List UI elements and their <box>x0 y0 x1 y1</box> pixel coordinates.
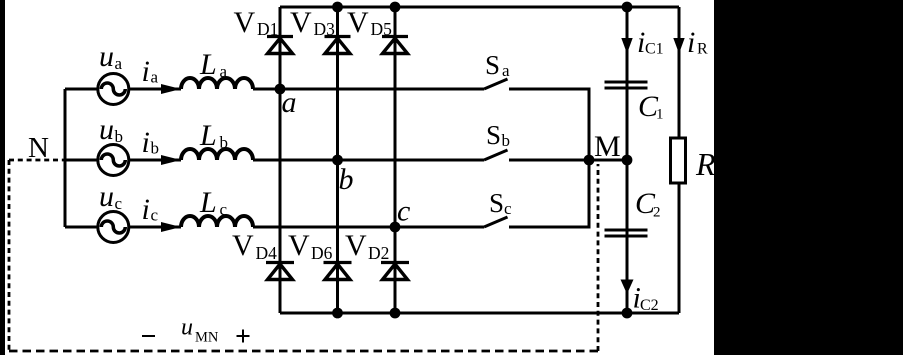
label iR <box>687 26 708 59</box>
svg-text:i: i <box>142 55 150 88</box>
label uMN <box>181 315 219 346</box>
label Lc <box>199 186 228 219</box>
switch Sa <box>484 79 508 89</box>
svg-text:i: i <box>142 126 150 159</box>
svg-text:u: u <box>99 180 114 213</box>
svg-text:M: M <box>594 130 621 163</box>
wire capacitor leg <box>626 7 629 313</box>
label C2 <box>635 187 661 221</box>
node c junction dot <box>390 222 401 233</box>
label uc <box>99 180 123 213</box>
svg-text:S: S <box>489 188 504 218</box>
svg-text:V: V <box>232 229 254 262</box>
label VD6 <box>288 229 333 263</box>
label ic <box>142 193 159 226</box>
svg-text:V: V <box>288 229 310 262</box>
svg-text:a: a <box>282 86 297 119</box>
source ua <box>98 74 129 105</box>
arrow iC1 current <box>621 38 632 54</box>
label VD4 <box>232 229 277 263</box>
svg-text:c: c <box>504 199 512 218</box>
node a junction dot <box>275 84 286 95</box>
diode VD6 <box>324 263 352 280</box>
label ua <box>99 40 123 73</box>
node capacitor midpoint dot <box>622 155 633 166</box>
svg-text:V: V <box>234 6 256 39</box>
label Lb <box>199 119 228 152</box>
switch Sc <box>484 217 508 227</box>
svg-text:D5: D5 <box>371 19 393 39</box>
wire bridge leg 1 (x=280) <box>279 7 282 313</box>
wire Sc to M leg <box>509 160 589 227</box>
label R <box>695 146 716 182</box>
svg-text:D4: D4 <box>256 243 278 263</box>
svg-text:C1: C1 <box>645 41 664 58</box>
dashed vertical to M <box>597 164 600 351</box>
label node c <box>397 195 410 228</box>
svg-text:MN: MN <box>195 330 219 346</box>
svg-text:S: S <box>486 120 501 150</box>
wire phase c line <box>65 226 484 229</box>
junction dot bottom bus leg2 <box>332 308 343 319</box>
label iC2 <box>633 282 659 315</box>
svg-text:b: b <box>339 163 354 196</box>
wire bridge leg 2 (x=337.5) <box>336 7 339 313</box>
svg-text:V: V <box>347 6 369 39</box>
diode VD3 <box>325 37 351 54</box>
wire top DC bus <box>280 6 679 9</box>
svg-text:D1: D1 <box>257 19 278 39</box>
svg-text:N: N <box>28 132 49 164</box>
diode VD4 <box>266 263 294 280</box>
label node a <box>282 86 297 119</box>
capacitor C1 <box>605 82 648 88</box>
svg-text:a: a <box>502 61 510 80</box>
arrow iC2 current <box>621 280 634 295</box>
inductor Lc <box>181 216 253 227</box>
svg-text:1: 1 <box>656 107 664 123</box>
label VD2 <box>345 229 389 263</box>
wire Sa to M leg <box>509 89 589 160</box>
svg-text:R: R <box>697 41 708 58</box>
inductor Lb <box>181 149 253 160</box>
svg-text:D3: D3 <box>314 19 336 39</box>
svg-text:c: c <box>151 206 159 225</box>
label N <box>28 132 49 164</box>
resistor R <box>671 138 686 183</box>
label La <box>199 48 228 81</box>
wire Sb to M <box>509 159 589 162</box>
right black border block <box>714 0 903 355</box>
left black border bar <box>0 0 5 355</box>
arrow iR current <box>673 38 684 54</box>
svg-text:V: V <box>345 229 367 262</box>
label iC1 <box>637 26 664 59</box>
label ia <box>142 55 159 88</box>
wire phase a line <box>65 88 484 91</box>
wire phase b line <box>65 159 484 162</box>
junction dot top bus capacitor leg <box>622 2 633 13</box>
svg-text:b: b <box>220 133 229 152</box>
diode VD1 <box>267 37 293 54</box>
node M junction dot <box>584 155 595 166</box>
diode VD5 <box>382 37 408 54</box>
inductor La <box>181 78 253 89</box>
label VD1 <box>234 6 279 39</box>
arrow ic current <box>161 222 181 232</box>
source uc <box>98 212 129 243</box>
dashed neutral link N horizontal <box>9 159 65 162</box>
svg-text:2: 2 <box>653 205 661 221</box>
svg-text:S: S <box>485 50 500 80</box>
label minus sign <box>142 335 155 337</box>
label VD3 <box>290 6 335 39</box>
svg-text:u: u <box>181 315 193 341</box>
svg-text:b: b <box>502 131 511 150</box>
svg-text:a: a <box>151 68 159 87</box>
svg-text:u: u <box>99 113 114 146</box>
label C1 <box>638 90 664 123</box>
label Sb <box>486 120 510 150</box>
junction dot bottom bus capacitor leg <box>622 308 633 319</box>
junction dot top bus leg3 <box>390 2 401 13</box>
arrow ib current <box>161 155 181 165</box>
wire bridge leg 3 (x=395) <box>394 7 397 313</box>
wire M to capacitor midpoint <box>589 159 627 162</box>
label node b <box>339 163 354 196</box>
label Sa <box>485 50 510 80</box>
svg-text:c: c <box>397 195 410 228</box>
svg-text:V: V <box>290 6 312 39</box>
dashed bottom horizontal <box>9 350 598 353</box>
label ib <box>142 126 160 159</box>
wire load leg <box>678 7 681 313</box>
capacitor C2 <box>605 230 648 236</box>
switch Sb <box>484 150 508 160</box>
source ub <box>98 145 129 176</box>
svg-text:b: b <box>115 127 124 146</box>
svg-text:i: i <box>142 193 150 226</box>
label plus sign <box>237 330 250 343</box>
svg-text:D6: D6 <box>311 243 333 263</box>
node b junction dot <box>332 155 343 166</box>
svg-text:c: c <box>115 194 123 213</box>
diode VD2 <box>381 263 409 280</box>
label VD5 <box>347 6 392 39</box>
svg-text:i: i <box>687 26 695 59</box>
wire left neutral vertical <box>64 89 67 227</box>
svg-text:a: a <box>220 62 228 81</box>
junction dot bottom bus leg3 <box>390 308 401 319</box>
junction dot top bus leg2 <box>332 2 343 13</box>
svg-text:L: L <box>199 186 217 219</box>
svg-text:L: L <box>199 48 217 81</box>
svg-text:R: R <box>695 146 716 182</box>
dashed neutral left vertical <box>8 160 11 351</box>
svg-text:c: c <box>220 200 228 219</box>
svg-text:C2: C2 <box>640 297 659 314</box>
arrow ia current <box>161 84 181 94</box>
label ub <box>99 113 123 146</box>
svg-text:D2: D2 <box>368 243 389 263</box>
label Sc <box>489 188 512 218</box>
svg-text:a: a <box>115 54 123 73</box>
svg-text:L: L <box>199 119 217 152</box>
svg-text:u: u <box>99 40 114 73</box>
svg-text:b: b <box>151 139 160 158</box>
wire bottom DC bus <box>280 312 679 315</box>
label M <box>594 130 621 163</box>
